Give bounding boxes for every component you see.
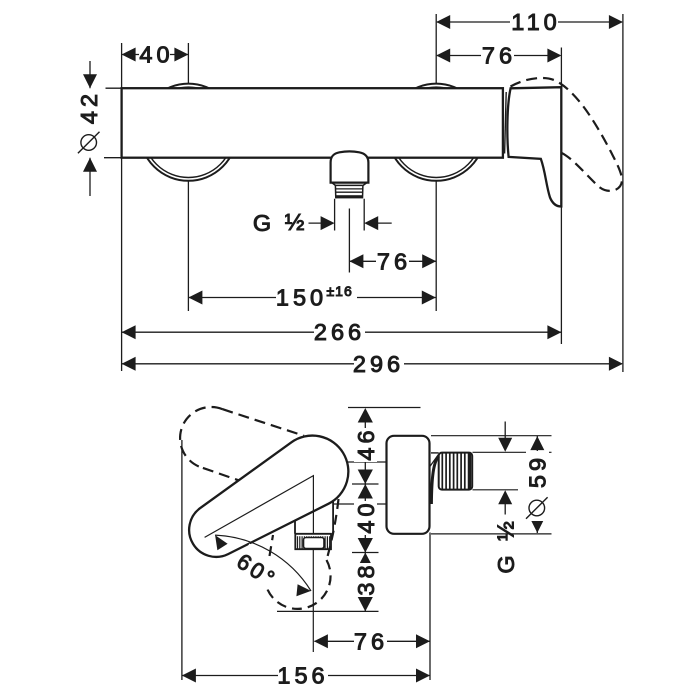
dim diameter 59 [536, 436, 538, 533]
reference line body top [431, 435, 552, 437]
svg-text:150: 150 [276, 285, 327, 311]
dim G 1/2 (side) [504, 422, 506, 515]
svg-text:59: 59 [524, 454, 550, 488]
left escutcheon circle outer [140, 84, 237, 181]
right escutcheon circle outer [388, 84, 485, 181]
dim G 1/2 (front) [309, 199, 392, 231]
reference line hub top [347, 461, 386, 463]
svg-text:156: 156 [277, 663, 328, 689]
dim 150 plus-minus 16 [188, 181, 435, 311]
svg-text:46: 46 [353, 426, 379, 460]
reference line lever top [348, 407, 421, 409]
lever (solid, side view) [189, 436, 348, 557]
hose connection knurl [298, 536, 330, 549]
escutcheon body (side view) [387, 436, 430, 534]
outlet centerline (front) [348, 209, 350, 273]
dim chain 46 40 38 [364, 410, 366, 611]
dim diameter 42 [90, 61, 122, 196]
lever centerline [205, 476, 314, 538]
thread gusset [430, 455, 439, 468]
outlet thread G1/2 (front) [335, 185, 363, 198]
svg-text:266: 266 [314, 319, 365, 345]
reference line lowered lever bottom [277, 610, 379, 612]
svg-text:G: G [253, 210, 275, 236]
svg-text:296: 296 [353, 351, 404, 377]
svg-text:76: 76 [377, 248, 411, 274]
svg-text:½: ½ [285, 209, 309, 235]
svg-text:110: 110 [511, 9, 560, 35]
outlet neck chamfer [332, 183, 367, 186]
svg-text:38: 38 [353, 561, 379, 595]
left escutcheon circle inner [143, 87, 233, 177]
reference line thread top [473, 451, 552, 453]
handle body with lever tip (solid) [507, 87, 561, 206]
outlet nut (front) [331, 151, 369, 182]
mixer body bar [122, 88, 503, 158]
svg-text:40: 40 [139, 42, 173, 68]
handle right extension below [560, 207, 562, 345]
svg-text:76: 76 [482, 43, 516, 69]
dim 76 top [437, 48, 561, 88]
svg-text:76: 76 [354, 628, 388, 654]
svg-text:42: 42 [76, 90, 102, 124]
handle raised position (dashed) [511, 78, 622, 191]
reference tick 552 [352, 552, 379, 554]
wall thread G1/2 (side) [442, 454, 470, 490]
hub below lever [295, 501, 333, 534]
right escutcheon circle inner [391, 87, 481, 177]
dim 40 [122, 43, 189, 88]
reference line thread bottom [473, 489, 519, 491]
dim 76 middle [350, 181, 436, 311]
svg-text:½: ½ [493, 517, 519, 541]
svg-text:40: 40 [353, 499, 379, 533]
outlet centerline (side) [312, 550, 314, 653]
60 degree swing arc [215, 535, 311, 591]
lever lowered position (dashed) [327, 499, 339, 560]
svg-text:±16: ±16 [327, 283, 353, 299]
dim 110 [436, 14, 623, 372]
reference tick 484 [352, 483, 379, 485]
dim 296 [122, 363, 622, 365]
reference line body bottom [431, 533, 552, 535]
lever raised position (dashed stadium) [222, 409, 304, 436]
dim 156 [182, 440, 430, 680]
cartridge ring joint line [505, 92, 507, 154]
reference line hub bottom [334, 503, 387, 505]
svg-text:G: G [493, 551, 519, 573]
dim 266 [122, 158, 561, 371]
dim 76 bottom [315, 533, 431, 681]
